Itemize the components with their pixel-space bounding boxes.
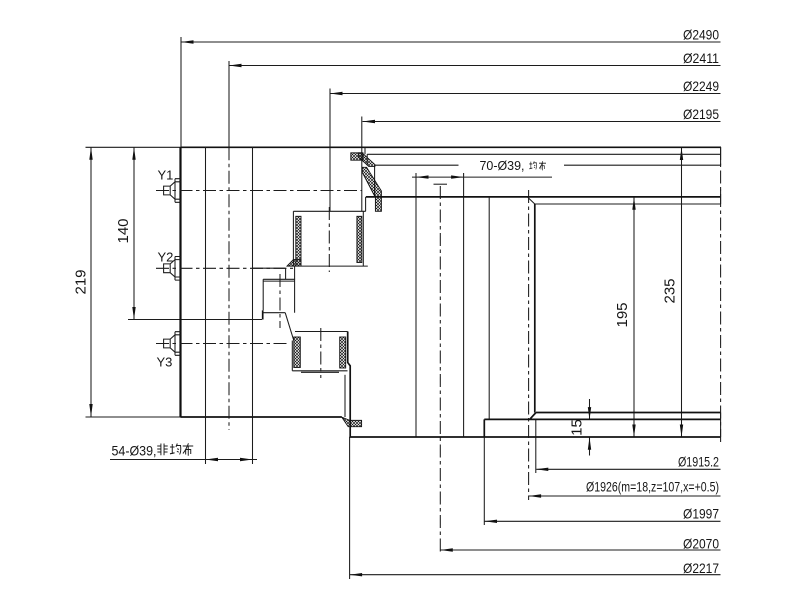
svg-text:235: 235 — [662, 278, 679, 303]
svg-text:Ø2411: Ø2411 — [683, 50, 719, 66]
svg-text:Y1: Y1 — [158, 168, 174, 183]
svg-text:219: 219 — [73, 269, 90, 294]
svg-text:Ø2195: Ø2195 — [683, 106, 719, 122]
svg-text:Ø1915.2: Ø1915.2 — [678, 454, 719, 470]
svg-text:Ø2217: Ø2217 — [683, 560, 719, 576]
svg-text:Ø2249: Ø2249 — [683, 78, 719, 94]
svg-text:Ø1997: Ø1997 — [683, 506, 719, 522]
svg-text:140: 140 — [115, 218, 132, 243]
svg-text:Ø2490: Ø2490 — [683, 27, 719, 43]
svg-text:70-Ø39,: 70-Ø39, — [480, 158, 525, 173]
svg-text:15: 15 — [569, 419, 586, 436]
svg-text:195: 195 — [614, 302, 631, 327]
svg-text:Ø2070: Ø2070 — [683, 536, 719, 552]
svg-text:Y2: Y2 — [158, 250, 174, 265]
svg-text:Y3: Y3 — [157, 355, 173, 370]
svg-text:Ø1926(m=18,z=107,x=+0.5): Ø1926(m=18,z=107,x=+0.5) — [586, 479, 719, 495]
svg-text:54-Ø39,: 54-Ø39, — [112, 443, 157, 459]
